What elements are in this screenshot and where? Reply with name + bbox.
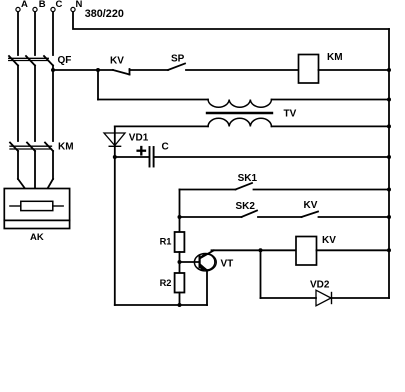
svg-text:R2: R2 xyxy=(160,278,172,288)
svg-text:VT: VT xyxy=(221,259,234,270)
svg-text:KV: KV xyxy=(322,235,336,246)
svg-text:KM: KM xyxy=(327,52,343,63)
svg-text:R1: R1 xyxy=(160,237,172,247)
svg-text:QF: QF xyxy=(58,55,72,66)
svg-text:C: C xyxy=(56,0,63,10)
svg-text:380/220: 380/220 xyxy=(85,8,124,20)
svg-text:VD1: VD1 xyxy=(129,132,149,143)
svg-text:SK2: SK2 xyxy=(236,201,256,212)
svg-text:KM: KM xyxy=(58,141,74,152)
svg-text:AK: AK xyxy=(30,232,44,243)
svg-text:KV: KV xyxy=(110,56,124,67)
svg-text:TV: TV xyxy=(284,109,297,120)
svg-text:C: C xyxy=(162,141,169,152)
svg-text:N: N xyxy=(76,0,83,10)
svg-text:B: B xyxy=(39,0,46,10)
svg-text:SP: SP xyxy=(171,54,185,65)
svg-text:SK1: SK1 xyxy=(238,173,258,184)
svg-text:A: A xyxy=(21,0,28,10)
svg-text:VD2: VD2 xyxy=(310,280,330,291)
svg-text:KV: KV xyxy=(304,200,318,211)
